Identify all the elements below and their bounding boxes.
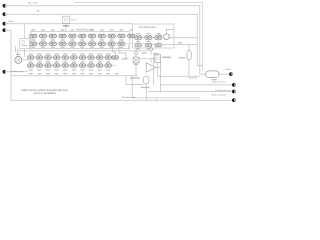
svg-text:Tail gas to stack: Tail gas to stack (212, 81, 226, 84)
svg-text:Cooling water: Cooling water (11, 70, 24, 73)
svg-text:Air: Air (37, 9, 40, 12)
svg-text:Cooling water out: Cooling water out (215, 89, 231, 92)
svg-text:Sulfuric: Sulfuric (225, 69, 232, 71)
svg-text:recovery (simplified): recovery (simplified) (33, 92, 56, 95)
svg-text:Mol. sulfur: Mol. sulfur (28, 3, 38, 5)
svg-text:Weak acid drain: Weak acid drain (212, 94, 226, 96)
svg-text:Blowdown drain: Blowdown drain (122, 97, 136, 99)
svg-text:Water: Water (8, 20, 14, 23)
svg-text:Acid Absorption: Acid Absorption (139, 26, 157, 29)
svg-text:Heat Recovery: Heat Recovery (76, 27, 94, 31)
svg-text:Acid tank: Acid tank (189, 77, 197, 80)
